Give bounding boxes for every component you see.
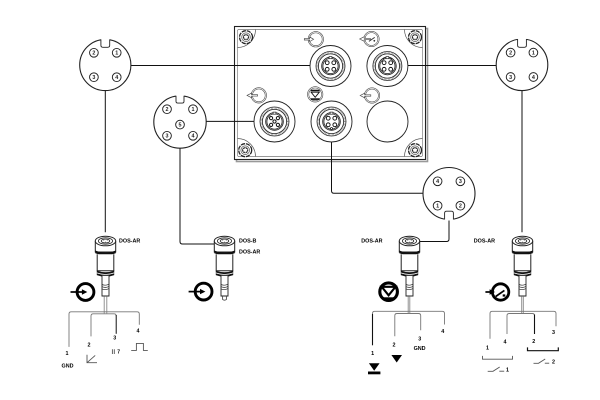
svg-text:4: 4	[436, 179, 439, 185]
svg-text:DOS-AR: DOS-AR	[239, 250, 260, 256]
svg-text:DOS-AR: DOS-AR	[361, 239, 382, 245]
svg-text:4: 4	[532, 75, 535, 81]
svg-text:2: 2	[459, 204, 462, 210]
svg-text:5: 5	[179, 123, 182, 129]
svg-text:GND: GND	[414, 346, 426, 352]
svg-text:1: 1	[506, 367, 509, 373]
svg-text:3: 3	[418, 336, 421, 342]
svg-text:4: 4	[115, 75, 118, 81]
svg-text:1: 1	[486, 346, 489, 352]
svg-text:1: 1	[532, 51, 535, 57]
svg-text:3: 3	[509, 75, 512, 81]
svg-text:2: 2	[552, 360, 555, 366]
svg-text:1: 1	[192, 107, 195, 113]
svg-text:4: 4	[137, 329, 140, 335]
svg-text:4: 4	[192, 134, 195, 140]
svg-text:1: 1	[371, 351, 374, 357]
svg-text:DOS-AR: DOS-AR	[474, 239, 495, 245]
svg-text:1: 1	[115, 51, 118, 57]
svg-text:2: 2	[166, 107, 169, 113]
svg-text:3: 3	[552, 330, 555, 336]
svg-text:3: 3	[92, 75, 95, 81]
svg-text:2: 2	[532, 339, 535, 345]
svg-text:3: 3	[459, 179, 462, 185]
svg-text:2: 2	[509, 51, 512, 57]
svg-text:DOS-B: DOS-B	[239, 239, 256, 245]
svg-text:GND: GND	[62, 363, 74, 369]
svg-text:4: 4	[441, 329, 444, 335]
svg-text:3: 3	[113, 336, 116, 342]
svg-text:1: 1	[66, 351, 69, 357]
svg-text:2: 2	[92, 51, 95, 57]
svg-text:1: 1	[436, 204, 439, 210]
svg-text:4: 4	[504, 339, 507, 345]
svg-text:2: 2	[88, 343, 91, 349]
svg-text:7: 7	[117, 350, 120, 356]
svg-text:2: 2	[393, 342, 396, 348]
svg-text:DOS-AR: DOS-AR	[119, 239, 140, 245]
svg-text:3: 3	[166, 134, 169, 140]
